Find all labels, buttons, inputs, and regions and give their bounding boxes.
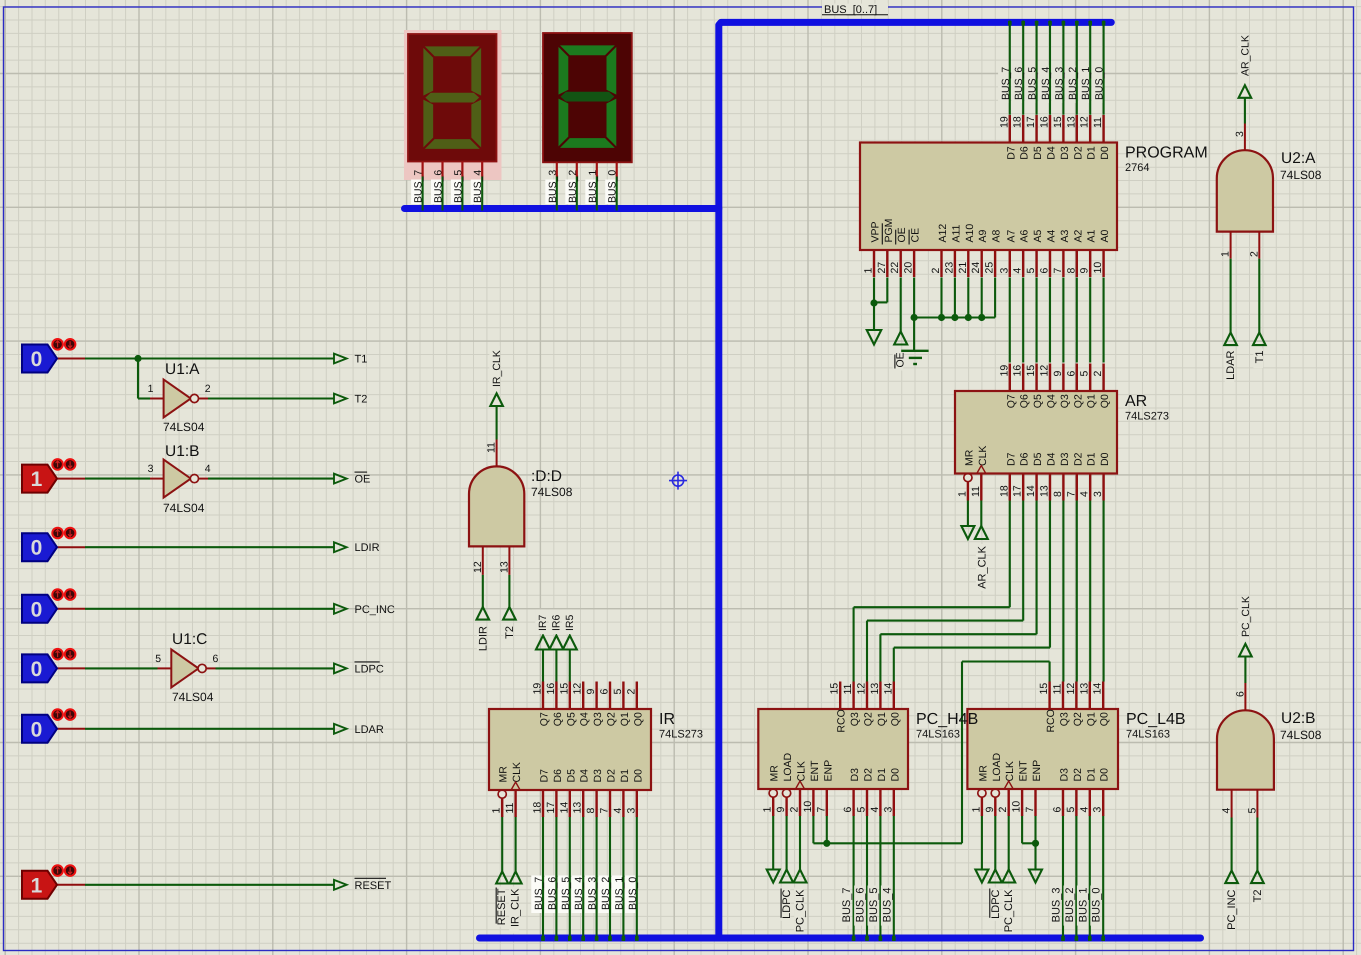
svg-text:CLK: CLK <box>511 762 523 782</box>
svg-text:8: 8 <box>585 808 597 814</box>
svg-text:A11: A11 <box>950 224 962 242</box>
svg-text:Q1: Q1 <box>876 712 888 726</box>
svg-text:D7: D7 <box>1005 452 1017 466</box>
svg-text:0: 0 <box>31 598 43 621</box>
svg-text:4: 4 <box>1012 268 1024 274</box>
svg-text:11: 11 <box>842 683 854 694</box>
svg-text:0: 0 <box>31 537 43 560</box>
svg-text:Q0: Q0 <box>1099 394 1111 408</box>
svg-text:T2: T2 <box>504 626 516 639</box>
svg-text:IR5: IR5 <box>564 615 576 632</box>
svg-text:BUS_7: BUS_7 <box>533 877 545 910</box>
svg-text:15: 15 <box>558 683 570 695</box>
svg-text:74LS273: 74LS273 <box>1125 411 1169 423</box>
svg-text:19: 19 <box>532 683 544 695</box>
svg-text:20: 20 <box>903 262 915 274</box>
svg-text:PROGRAM: PROGRAM <box>1125 145 1208 162</box>
svg-text:RCO: RCO <box>836 709 848 732</box>
svg-text:T1: T1 <box>355 354 368 366</box>
svg-text:A0: A0 <box>1099 229 1111 242</box>
svg-text:BUS_6: BUS_6 <box>546 877 558 910</box>
svg-text:ENP: ENP <box>1031 760 1043 782</box>
svg-text:16: 16 <box>545 683 557 695</box>
svg-text:LDIR: LDIR <box>355 542 380 554</box>
svg-text:5: 5 <box>856 807 868 813</box>
svg-text:74LS04: 74LS04 <box>163 501 205 515</box>
svg-text:9: 9 <box>585 689 597 695</box>
svg-text:Q6: Q6 <box>1019 394 1031 408</box>
svg-text:Q5: Q5 <box>565 712 577 726</box>
svg-text:18: 18 <box>1012 116 1024 128</box>
svg-text:10: 10 <box>1011 801 1023 813</box>
svg-text:D1: D1 <box>619 769 631 783</box>
svg-text:U1:B: U1:B <box>165 443 199 460</box>
svg-text:1: 1 <box>863 268 875 274</box>
svg-text:LDIR: LDIR <box>477 626 489 651</box>
svg-text:MR: MR <box>977 765 989 782</box>
svg-text:6: 6 <box>842 807 854 813</box>
svg-text:Q7: Q7 <box>539 712 551 726</box>
svg-text:17: 17 <box>1025 116 1037 128</box>
svg-text:1: 1 <box>31 874 43 897</box>
svg-text:BUS_2: BUS_2 <box>1064 888 1076 923</box>
svg-text:LDAR: LDAR <box>355 724 384 736</box>
svg-text:16: 16 <box>1012 365 1024 377</box>
svg-text:3: 3 <box>625 808 637 814</box>
svg-text:12: 12 <box>472 561 484 573</box>
svg-text:11: 11 <box>504 802 516 813</box>
svg-text:BUS_3: BUS_3 <box>1051 888 1063 923</box>
svg-text:D4: D4 <box>1046 146 1058 160</box>
svg-text:ENT: ENT <box>809 760 821 782</box>
svg-text:2: 2 <box>1092 371 1104 377</box>
svg-text:ENT: ENT <box>1018 760 1030 782</box>
svg-text:4: 4 <box>612 808 624 814</box>
svg-text:D3: D3 <box>1059 768 1071 782</box>
svg-text:D1: D1 <box>1086 452 1098 466</box>
svg-text:BUS_2: BUS_2 <box>600 877 612 910</box>
svg-text:Q0: Q0 <box>632 712 644 726</box>
svg-text:D5: D5 <box>1032 452 1044 466</box>
svg-text:Q6: Q6 <box>552 712 564 726</box>
svg-text:Q3: Q3 <box>849 712 861 726</box>
svg-text:AR_CLK: AR_CLK <box>1239 35 1251 76</box>
svg-text:1: 1 <box>1220 251 1232 257</box>
svg-text:PC_H4B: PC_H4B <box>916 711 978 728</box>
svg-text:15: 15 <box>1038 683 1050 695</box>
svg-text:MR: MR <box>769 765 781 782</box>
svg-text:BUS_7: BUS_7 <box>1000 67 1012 100</box>
svg-text:12: 12 <box>1065 683 1077 695</box>
svg-text:D7: D7 <box>1005 146 1017 160</box>
svg-text:BUS_7: BUS_7 <box>841 888 853 923</box>
svg-text:6: 6 <box>1039 268 1051 274</box>
svg-text:5: 5 <box>612 689 624 695</box>
svg-text:BUS_3: BUS_3 <box>587 877 599 910</box>
svg-text:A4: A4 <box>1046 229 1058 242</box>
svg-text:T2: T2 <box>1252 890 1264 903</box>
svg-text:BUS_2: BUS_2 <box>1067 67 1079 100</box>
svg-text:19: 19 <box>998 365 1010 377</box>
svg-text:Q2: Q2 <box>863 712 875 726</box>
svg-text:A2: A2 <box>1072 229 1084 242</box>
svg-text:74LS04: 74LS04 <box>172 690 214 704</box>
svg-text:PC_CLK: PC_CLK <box>1003 889 1015 932</box>
svg-text:BUS_[0..7]: BUS_[0..7] <box>824 4 877 16</box>
svg-text:IR7: IR7 <box>537 615 549 632</box>
svg-text:12: 12 <box>572 683 584 695</box>
svg-text:CLK: CLK <box>1004 761 1016 781</box>
svg-text:Q1: Q1 <box>1086 394 1098 408</box>
svg-text:2: 2 <box>625 689 637 695</box>
svg-text:6: 6 <box>1065 371 1077 377</box>
svg-text:CE: CE <box>910 228 922 243</box>
svg-text:BUS_6: BUS_6 <box>855 888 867 923</box>
svg-text:4: 4 <box>1079 491 1091 497</box>
svg-text:U2:A: U2:A <box>1281 150 1316 167</box>
svg-text:D3: D3 <box>592 769 604 783</box>
svg-text:5: 5 <box>155 653 161 665</box>
svg-text:LDPC: LDPC <box>990 889 1002 918</box>
svg-text:2764: 2764 <box>1125 162 1149 174</box>
svg-text:4: 4 <box>205 463 211 475</box>
svg-text:13: 13 <box>1065 116 1077 128</box>
svg-text:1: 1 <box>31 468 43 491</box>
svg-text:14: 14 <box>1092 683 1104 695</box>
svg-text:BUS_6: BUS_6 <box>1013 67 1025 100</box>
svg-text:D1: D1 <box>1086 146 1098 160</box>
svg-text:D1: D1 <box>1085 768 1097 782</box>
svg-text:IR: IR <box>659 711 675 728</box>
svg-text:IR_CLK: IR_CLK <box>491 350 503 387</box>
svg-text:Q3: Q3 <box>1059 712 1071 726</box>
svg-text:D6: D6 <box>1019 146 1031 160</box>
svg-text:PGM: PGM <box>883 219 895 243</box>
svg-text:T2: T2 <box>355 394 368 406</box>
svg-text:12: 12 <box>856 683 868 695</box>
svg-text:A7: A7 <box>1005 229 1017 242</box>
svg-text:D0: D0 <box>1099 146 1111 160</box>
svg-text:18: 18 <box>532 802 544 814</box>
svg-text:13: 13 <box>1039 485 1051 497</box>
svg-text:D6: D6 <box>1019 452 1031 466</box>
svg-text:5: 5 <box>1079 371 1091 377</box>
svg-text:D3: D3 <box>1059 452 1071 466</box>
svg-text:BUS_0: BUS_0 <box>1091 888 1103 923</box>
svg-text:D3: D3 <box>1059 146 1071 160</box>
svg-text:BUS_5: BUS_5 <box>868 888 880 923</box>
svg-text:LDAR: LDAR <box>1225 350 1237 379</box>
svg-text:0: 0 <box>31 718 43 741</box>
svg-text:74LS08: 74LS08 <box>1280 168 1322 182</box>
svg-text:14: 14 <box>1025 485 1037 497</box>
svg-text:7: 7 <box>1052 268 1064 274</box>
svg-text:Q4: Q4 <box>579 712 591 726</box>
svg-text:7: 7 <box>1024 807 1036 813</box>
svg-text:11: 11 <box>1092 117 1104 128</box>
svg-text:3: 3 <box>1092 807 1104 813</box>
svg-text:4: 4 <box>869 807 881 813</box>
svg-text:A6: A6 <box>1019 229 1031 242</box>
svg-text:Q2: Q2 <box>606 712 618 726</box>
svg-text:D1: D1 <box>876 768 888 782</box>
svg-text:12: 12 <box>1079 116 1091 128</box>
svg-text:BUS_4: BUS_4 <box>1040 67 1052 100</box>
svg-text:13: 13 <box>1078 683 1090 695</box>
svg-text:7: 7 <box>599 808 611 814</box>
svg-text:3: 3 <box>1092 491 1104 497</box>
svg-text:2: 2 <box>789 807 801 813</box>
svg-text:11: 11 <box>1052 683 1064 694</box>
svg-text:CLK: CLK <box>977 446 989 466</box>
svg-text:1: 1 <box>970 807 982 813</box>
svg-text:D6: D6 <box>552 769 564 783</box>
svg-text:D2: D2 <box>1072 452 1084 466</box>
svg-text:1: 1 <box>491 808 503 814</box>
svg-text:0: 0 <box>31 658 43 681</box>
svg-text:Q1: Q1 <box>1085 712 1097 726</box>
svg-text:D4: D4 <box>579 769 591 783</box>
svg-text:2: 2 <box>1248 251 1260 257</box>
svg-text:8: 8 <box>1052 491 1064 497</box>
svg-text:1: 1 <box>148 383 154 395</box>
svg-text:74LS04: 74LS04 <box>163 420 205 434</box>
svg-text:Q0: Q0 <box>889 712 901 726</box>
svg-text:OE: OE <box>895 352 907 367</box>
svg-text:IR_CLK: IR_CLK <box>510 888 522 927</box>
svg-text:13: 13 <box>869 683 881 695</box>
svg-text:CLK: CLK <box>796 761 808 781</box>
svg-text:A9: A9 <box>977 229 989 242</box>
svg-text:RESET: RESET <box>496 888 508 925</box>
svg-text:17: 17 <box>545 802 557 814</box>
svg-text:IR6: IR6 <box>550 615 562 632</box>
svg-text:D0: D0 <box>889 768 901 782</box>
svg-text:7: 7 <box>1065 491 1077 497</box>
svg-text:A1: A1 <box>1086 229 1098 242</box>
svg-text:A5: A5 <box>1032 229 1044 242</box>
svg-text:21: 21 <box>957 262 969 274</box>
svg-text:BUS_0: BUS_0 <box>627 877 639 910</box>
svg-text:Q0: Q0 <box>1099 712 1111 726</box>
svg-text:BUS_3: BUS_3 <box>1053 67 1065 100</box>
svg-text:Q2: Q2 <box>1072 712 1084 726</box>
svg-text:5: 5 <box>1065 807 1077 813</box>
svg-text:4: 4 <box>1221 808 1233 814</box>
svg-text:BUS_1: BUS_1 <box>613 877 625 910</box>
svg-text:0: 0 <box>31 348 43 371</box>
svg-text:D2: D2 <box>1072 146 1084 160</box>
svg-text:BUS_5: BUS_5 <box>560 877 572 910</box>
svg-text:AR_CLK: AR_CLK <box>976 545 988 588</box>
svg-text:D4: D4 <box>1046 452 1058 466</box>
svg-text:PC_INC: PC_INC <box>1226 889 1238 929</box>
svg-text:3: 3 <box>1234 131 1246 137</box>
svg-text:BUS_4: BUS_4 <box>573 877 585 910</box>
svg-text:AR: AR <box>1125 393 1147 410</box>
svg-text:6: 6 <box>213 653 219 665</box>
svg-text:D0: D0 <box>632 769 644 783</box>
svg-text:14: 14 <box>558 802 570 814</box>
svg-text:24: 24 <box>970 262 982 274</box>
svg-text:15: 15 <box>1052 116 1064 128</box>
svg-text:1: 1 <box>762 807 774 813</box>
svg-text:MR: MR <box>498 766 510 783</box>
svg-text:OE: OE <box>896 227 908 242</box>
svg-text:LOAD: LOAD <box>991 752 1003 781</box>
svg-text:D2: D2 <box>863 768 875 782</box>
svg-text:1: 1 <box>956 491 968 497</box>
svg-text:9: 9 <box>1079 268 1091 274</box>
svg-text:23: 23 <box>943 262 955 274</box>
svg-text:5: 5 <box>1246 808 1258 814</box>
svg-text:18: 18 <box>998 485 1010 497</box>
svg-text:17: 17 <box>1012 485 1024 497</box>
svg-text:15: 15 <box>829 683 841 695</box>
svg-text:VPP: VPP <box>870 221 882 242</box>
svg-text:D0: D0 <box>1099 768 1111 782</box>
svg-text:BUS_5: BUS_5 <box>1027 67 1039 100</box>
svg-text:U1:A: U1:A <box>165 361 200 378</box>
svg-text:74LS273: 74LS273 <box>659 729 703 741</box>
svg-text:74LS163: 74LS163 <box>1126 729 1170 741</box>
svg-text:3: 3 <box>148 463 154 475</box>
svg-text:11: 11 <box>486 442 498 453</box>
svg-text:LOAD: LOAD <box>782 752 794 781</box>
svg-text:27: 27 <box>876 262 888 274</box>
svg-text:OE: OE <box>355 474 371 486</box>
svg-text:2: 2 <box>205 383 211 395</box>
svg-text:Q4: Q4 <box>1046 394 1058 408</box>
svg-text:BUS_0: BUS_0 <box>1094 67 1106 100</box>
svg-text:6: 6 <box>1052 807 1064 813</box>
svg-text:D2: D2 <box>606 769 618 783</box>
svg-text:10: 10 <box>1092 262 1104 274</box>
svg-text:22: 22 <box>889 262 901 274</box>
svg-text:74LS08: 74LS08 <box>1280 728 1322 742</box>
svg-text:PC_L4B: PC_L4B <box>1126 711 1186 728</box>
svg-text:14: 14 <box>882 683 894 695</box>
svg-text:25: 25 <box>984 262 996 274</box>
svg-text:BUS_1: BUS_1 <box>1080 67 1092 100</box>
svg-text:BUS_1: BUS_1 <box>1077 888 1089 923</box>
svg-text:T1: T1 <box>1254 351 1266 364</box>
svg-text::D:D: :D:D <box>531 468 562 485</box>
svg-text:Q3: Q3 <box>592 712 604 726</box>
svg-text:4: 4 <box>1078 807 1090 813</box>
svg-text:8: 8 <box>1065 268 1077 274</box>
svg-text:A3: A3 <box>1059 229 1071 242</box>
svg-text:9: 9 <box>984 807 996 813</box>
svg-text:RCO: RCO <box>1045 709 1057 732</box>
svg-text:D3: D3 <box>849 768 861 782</box>
svg-text:MR: MR <box>963 449 975 466</box>
svg-text:A10: A10 <box>964 224 976 243</box>
svg-text:D5: D5 <box>1032 146 1044 160</box>
svg-text:Q1: Q1 <box>619 712 631 726</box>
svg-text:5: 5 <box>1025 268 1037 274</box>
svg-text:D2: D2 <box>1072 768 1084 782</box>
svg-text:A8: A8 <box>991 229 1003 242</box>
svg-text:RESET: RESET <box>355 880 392 892</box>
svg-text:16: 16 <box>1039 116 1051 128</box>
svg-text:D7: D7 <box>539 769 551 783</box>
svg-text:11: 11 <box>970 486 982 497</box>
svg-text:9: 9 <box>1052 371 1064 377</box>
svg-text:3: 3 <box>882 807 894 813</box>
svg-text:ENP: ENP <box>822 760 834 782</box>
svg-text:7: 7 <box>815 807 827 813</box>
svg-text:74LS08: 74LS08 <box>531 485 573 499</box>
svg-text:U1:C: U1:C <box>172 631 207 648</box>
svg-text:3: 3 <box>998 268 1010 274</box>
svg-text:PC_CLK: PC_CLK <box>1240 596 1252 637</box>
svg-text:BUS_4: BUS_4 <box>881 888 893 923</box>
svg-text:Q2: Q2 <box>1072 394 1084 408</box>
svg-text:74LS163: 74LS163 <box>916 729 960 741</box>
svg-text:15: 15 <box>1025 365 1037 377</box>
svg-text:U2:B: U2:B <box>1281 710 1315 727</box>
svg-text:6: 6 <box>1234 691 1246 697</box>
svg-text:13: 13 <box>498 561 510 573</box>
svg-text:10: 10 <box>802 801 814 813</box>
svg-text:19: 19 <box>998 116 1010 128</box>
svg-text:A12: A12 <box>937 224 949 243</box>
svg-text:9: 9 <box>775 807 787 813</box>
svg-text:2: 2 <box>997 807 1009 813</box>
svg-text:PC_CLK: PC_CLK <box>795 889 807 932</box>
svg-text:D0: D0 <box>1099 452 1111 466</box>
svg-text:Q3: Q3 <box>1059 394 1071 408</box>
svg-text:13: 13 <box>572 802 584 814</box>
svg-text:2: 2 <box>930 268 942 274</box>
svg-text:12: 12 <box>1039 365 1051 377</box>
svg-text:6: 6 <box>599 689 611 695</box>
svg-text:Q5: Q5 <box>1032 394 1044 408</box>
svg-text:Q7: Q7 <box>1005 394 1017 408</box>
svg-text:PC_INC: PC_INC <box>355 604 395 616</box>
svg-text:LDPC: LDPC <box>781 889 793 918</box>
svg-text:LDPC: LDPC <box>355 663 384 675</box>
svg-text:D5: D5 <box>565 769 577 783</box>
